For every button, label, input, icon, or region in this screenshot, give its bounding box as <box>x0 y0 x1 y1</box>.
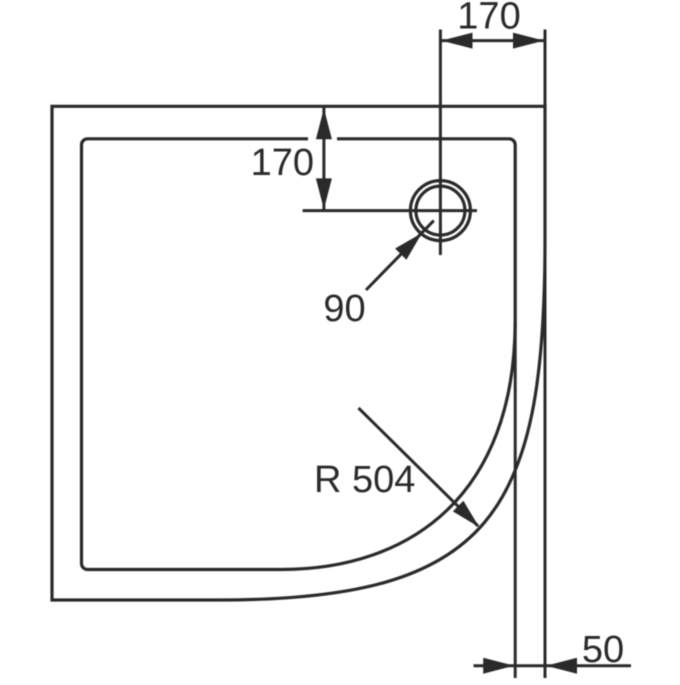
svg-text:90: 90 <box>323 288 365 330</box>
arrowhead vert dim up <box>316 108 332 139</box>
vertical dim line 170 <box>322 108 325 211</box>
svg-text:R 504: R 504 <box>314 459 415 501</box>
inner tray outline <box>82 139 516 570</box>
outer tray outline <box>52 106 545 600</box>
top dim line 170 <box>440 39 545 42</box>
arrowhead 50 left <box>483 658 514 674</box>
arrowhead top dim right <box>513 33 544 49</box>
crosshair horizontal at drain <box>303 209 477 212</box>
arrowhead vert dim down <box>316 178 332 209</box>
extension line inner right edge extended <box>514 322 517 678</box>
arrowhead R504 leader <box>453 501 480 528</box>
svg-text:170: 170 <box>251 142 314 184</box>
extension line / crosshair vertical at drain <box>439 30 442 256</box>
svg-text:50: 50 <box>582 629 624 671</box>
arrowhead top dim left <box>441 33 472 49</box>
arrowhead 50 right <box>546 658 577 674</box>
bottom dim line 50 <box>474 664 632 667</box>
leader line R504 <box>359 408 479 526</box>
leader line 90 <box>366 221 434 290</box>
drain inner circle <box>416 186 465 235</box>
svg-text:170: 170 <box>457 0 520 38</box>
extension line right edge extended <box>544 30 547 679</box>
arrowhead 90 leader <box>395 233 422 260</box>
drain outer circle <box>410 181 470 241</box>
